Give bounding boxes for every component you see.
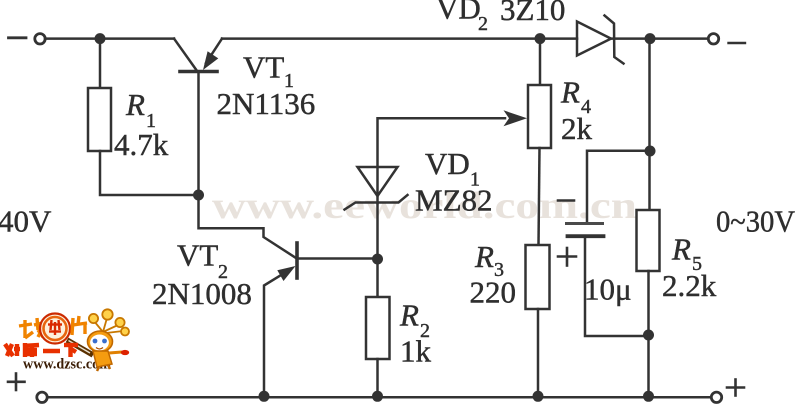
wire capacitor bottom [585, 238, 649, 336]
wire R3 bottom lead [537, 309, 540, 397]
potentiometer R4 wiper arrow [504, 110, 528, 126]
svg-text:2k: 2k [561, 111, 593, 146]
svg-text:2N1008: 2N1008 [152, 276, 252, 311]
node R5 bottom [643, 391, 654, 402]
wire R4 to R3 [539, 148, 540, 245]
svg-text:3Z10: 3Z10 [500, 0, 565, 27]
node R5 top junction [645, 33, 656, 44]
transistor VT2 base bar [295, 243, 299, 278]
capacitor plus sign [558, 255, 576, 258]
svg-text:VT: VT [243, 50, 284, 85]
svg-text:VT: VT [177, 238, 218, 273]
wire R5 bottom lead [647, 271, 650, 397]
node R2 bottom [372, 391, 383, 402]
diode VD2 zener bar [605, 16, 624, 64]
svg-text:R: R [125, 87, 145, 122]
svg-text:40V: 40V [0, 204, 52, 239]
svg-text:2: 2 [478, 13, 488, 35]
logo dzsc bottom-left [5, 309, 129, 372]
resistor R5 [637, 210, 660, 271]
wire VD1 top / wiper wire [378, 118, 506, 203]
capacitor minus dash [558, 199, 574, 202]
wire VT1 base to VT2 [199, 195, 297, 258]
svg-text:R: R [671, 232, 691, 267]
wire VT1 base lead [197, 72, 200, 196]
logo magnifier handle [67, 340, 93, 355]
node capacitor top junction [645, 146, 656, 157]
terminal bottom-right [711, 392, 721, 402]
diode VD2 triangle [577, 22, 611, 56]
svg-text:2.2k: 2.2k [662, 268, 717, 303]
diode VD1 zener bar [345, 195, 408, 210]
node VT2 emitter bottom [259, 391, 270, 402]
svg-text:VD: VD [436, 0, 481, 26]
svg-text:R: R [474, 239, 494, 274]
logo text weikuyixia [5, 343, 78, 357]
node VD1/R2/VT2 junction [372, 254, 383, 265]
node R4 top junction [535, 33, 546, 44]
svg-text:R: R [560, 75, 580, 110]
wire capacitor top [587, 151, 650, 223]
logo mascot crown [89, 309, 129, 335]
svg-text:220: 220 [470, 275, 517, 310]
resistor R3 [526, 245, 550, 309]
wire top rail right segment [222, 37, 577, 40]
svg-text:10μ: 10μ [584, 272, 632, 307]
svg-text:1k: 1k [400, 334, 432, 369]
transistor VT2 emitter with arrow [264, 275, 282, 398]
wire R2 bottom lead [376, 359, 379, 397]
svg-text:VD: VD [425, 146, 470, 181]
resistor R1 [88, 88, 111, 151]
wire R1 bottom lead [100, 151, 199, 195]
wire R1 top lead [99, 39, 102, 88]
plus label bottom-right [727, 386, 744, 389]
terminal top-right [708, 34, 718, 44]
transistor VT1 collector diagonal [174, 39, 196, 70]
wire R4 top lead [539, 39, 542, 85]
capacitor C plates [567, 222, 603, 225]
minus label top-left [9, 36, 27, 39]
wire R5 top lead [648, 39, 651, 210]
potentiometer R4 [528, 85, 551, 148]
svg-text:MZ82: MZ82 [415, 183, 493, 218]
svg-text:0~30V: 0~30V [716, 204, 796, 239]
diode VD1 triangle [358, 167, 398, 196]
node capacitor bottom junction [643, 330, 654, 341]
terminal bottom-left [37, 392, 47, 402]
logo mascot head [88, 331, 113, 352]
wire VD1 bottom [376, 203, 379, 297]
wire VD2 to output [611, 37, 708, 40]
minus label top-right [729, 42, 746, 44]
logo char pian [72, 316, 87, 335]
svg-text:R: R [399, 298, 419, 333]
logo magnifier [40, 314, 70, 344]
transistor VT1 emitter with arrow [206, 39, 222, 63]
logo mascot body [93, 351, 112, 367]
terminal top-left [35, 34, 45, 44]
resistor R2 [366, 297, 390, 359]
plus label bottom-left [8, 380, 25, 383]
node junction R1 top [95, 33, 106, 44]
wire top rail left segment [45, 37, 174, 40]
node R3 bottom [533, 391, 544, 402]
logo char zhao [19, 318, 43, 338]
transistor VT1 base bar [180, 70, 217, 74]
svg-text:2N1136: 2N1136 [217, 86, 316, 121]
wire bottom rail [47, 396, 709, 399]
svg-text:4.7k: 4.7k [114, 127, 169, 162]
node VT1 base / R1 junction [193, 190, 204, 201]
wire VT2 base lead [298, 257, 378, 260]
